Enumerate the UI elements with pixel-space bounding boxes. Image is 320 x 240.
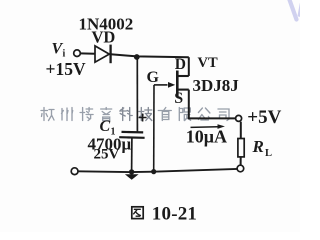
svg-text:L: L — [265, 148, 272, 159]
svg-text:G: G — [147, 69, 160, 86]
svg-text:i: i — [63, 49, 66, 60]
svg-text:S: S — [174, 90, 183, 107]
svg-text:VD: VD — [92, 28, 116, 47]
svg-text:C: C — [100, 118, 111, 135]
svg-text:25V: 25V — [94, 147, 120, 163]
svg-text:R: R — [252, 137, 264, 156]
svg-text:D: D — [175, 56, 186, 73]
svg-text:10-21: 10-21 — [152, 204, 197, 225]
svg-text:3DJ8J: 3DJ8J — [193, 76, 240, 95]
svg-text:+15V: +15V — [46, 59, 86, 79]
svg-text:10μA: 10μA — [186, 127, 227, 147]
svg-text:+5V: +5V — [247, 107, 281, 128]
svg-text:VT: VT — [198, 55, 218, 71]
